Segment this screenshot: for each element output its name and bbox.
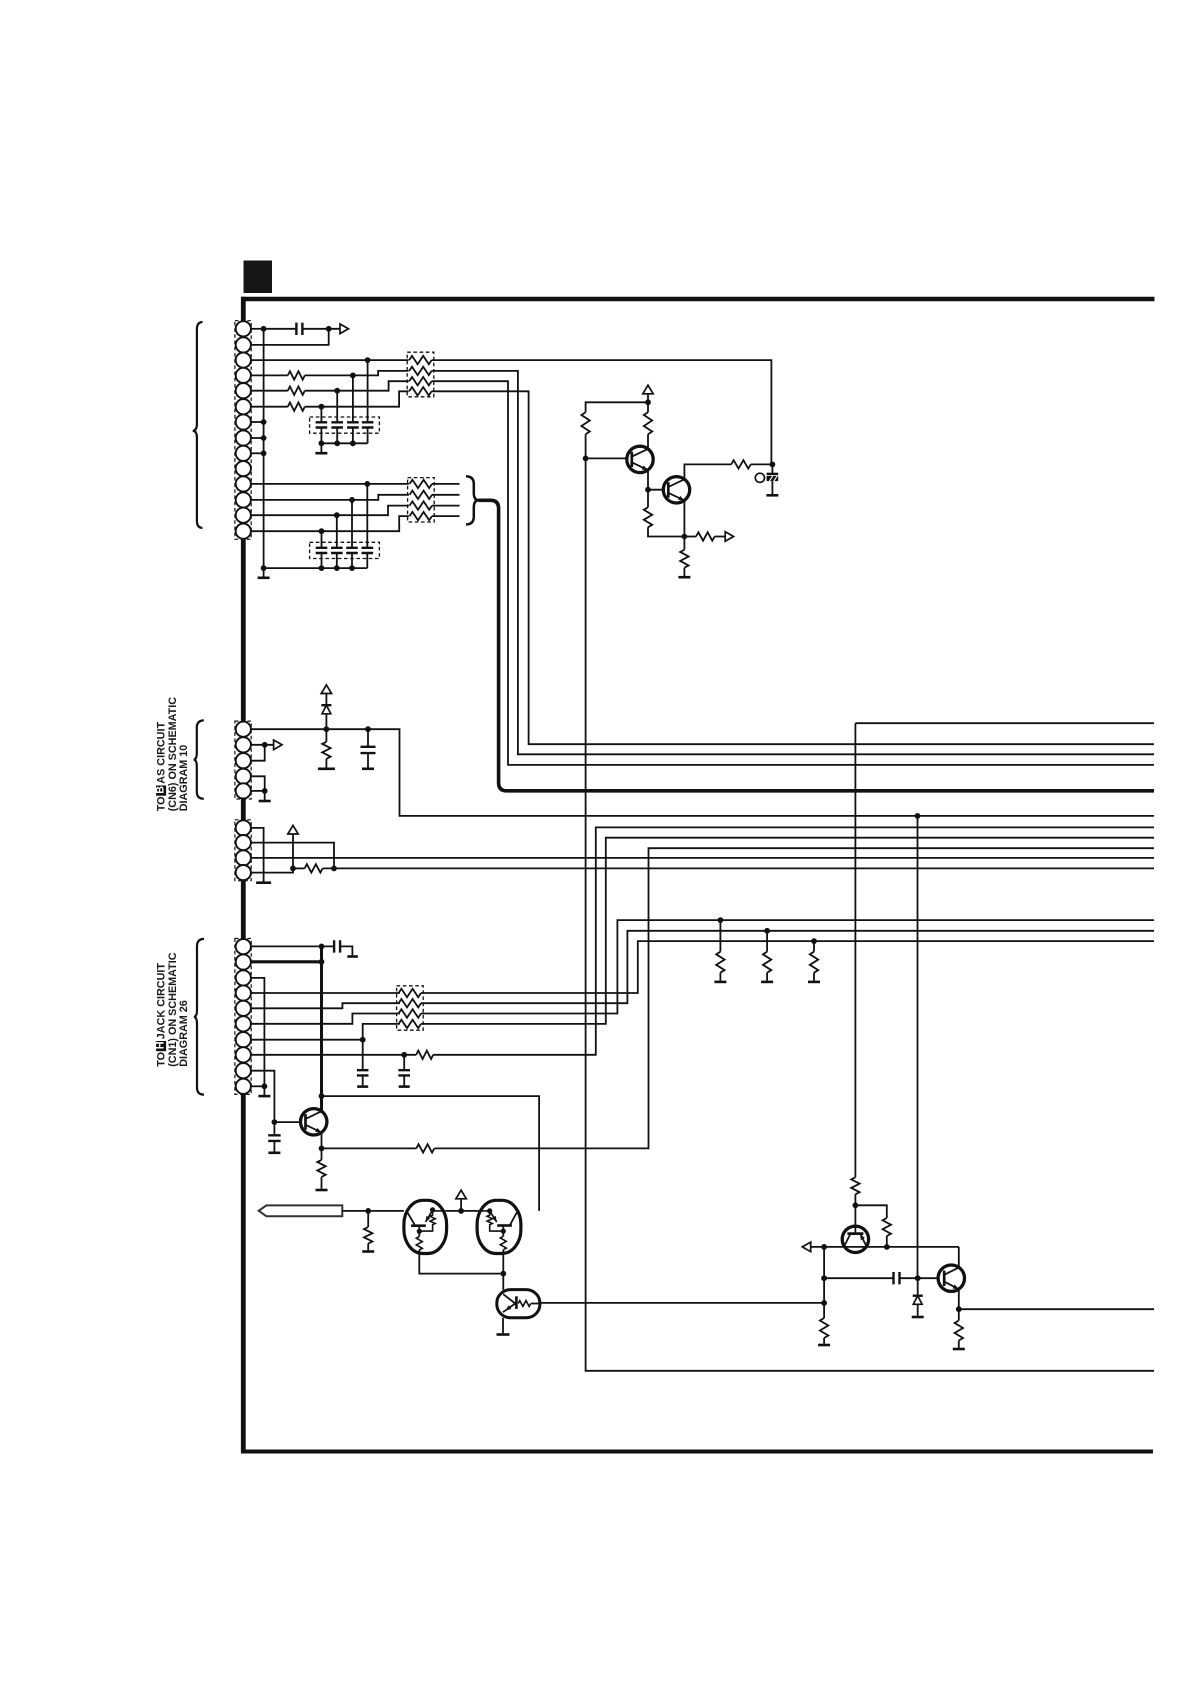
wire pin A1 stub xyxy=(251,328,264,330)
wire node to R21 xyxy=(855,1205,886,1218)
capacitor CN1.3 xyxy=(347,422,359,427)
ground (R22) xyxy=(818,1344,830,1347)
resistor RN2b xyxy=(410,491,432,499)
page frame: black index square top-left xyxy=(244,261,273,294)
wire Q5 emitter bus to right edge xyxy=(959,1308,1154,1310)
wire pin A4 stub xyxy=(251,374,288,376)
svg-text:(CN1) ON SCHEMATIC: (CN1) ON SCHEMATIC xyxy=(167,952,179,1067)
transistor Q5 (NPN, base on left) xyxy=(938,1265,964,1291)
capacitor network CN1 dashed outline xyxy=(310,417,380,433)
wire Q5 emitter down xyxy=(958,1289,960,1320)
wire Q2 emitter down xyxy=(683,501,685,537)
wire diode D1 to node B1 xyxy=(325,714,327,729)
wire supply to node C4 xyxy=(292,834,294,868)
wire CN1.2 lower lead xyxy=(336,428,338,444)
node A7 on bus xyxy=(261,419,267,425)
resistor RN1b xyxy=(409,367,431,375)
svg-text:JACK CIRCUIT: JACK CIRCUIT xyxy=(155,963,167,1040)
resistor R10 (emitter load) xyxy=(680,550,688,568)
wire R7 to Q2 emitter node xyxy=(648,527,684,536)
node B4/B5 tie xyxy=(262,788,268,794)
wire R10 to ground xyxy=(683,568,685,576)
capacitor CN2.3 xyxy=(346,548,358,553)
wire Q3 collector net to D2 emitter xyxy=(322,1096,540,1211)
resistor RN3c xyxy=(399,1009,421,1017)
wire long vertical from Q1 base node to bottom bus xyxy=(586,458,1154,1370)
wire D2 to D3 xyxy=(447,1210,478,1212)
resistor R15 (bus pulldown) xyxy=(763,952,771,973)
wire Q3 emitter to R17 xyxy=(322,1147,417,1149)
svg-text:DIAGRAM 10: DIAGRAM 10 xyxy=(178,745,190,812)
D2 emitter arrow xyxy=(426,1216,431,1222)
wire thick bus from brace down and right to edge xyxy=(478,500,1154,791)
resistor R21 (Q4 feedback) xyxy=(883,1218,891,1236)
wire pin C2 down to R12 output xyxy=(251,843,334,869)
svg-text:TO: TO xyxy=(155,1052,167,1067)
ground (cap C6) xyxy=(268,1152,280,1155)
wire pin A3 to resistor network RN1 xyxy=(251,359,409,361)
node J1 xyxy=(319,944,325,950)
resistor R13 (pin J8 series) xyxy=(416,1051,433,1059)
node Q4 base/R21 xyxy=(853,1202,859,1208)
wire cap network CN2 ground rail xyxy=(264,567,368,569)
wire cap C4 to ground xyxy=(362,1075,364,1085)
wire diode D4 to ground xyxy=(917,1304,919,1316)
label TO BIAS CIRCUIT (rotated) xyxy=(155,697,191,812)
wire A6 to RN1 row4 xyxy=(305,391,409,406)
ground (PH1) xyxy=(497,1333,510,1336)
wire bus941 to R16 xyxy=(813,941,815,952)
svg-text:(CN6) ON SCHEMATIC: (CN6) ON SCHEMATIC xyxy=(167,697,179,812)
node A9 on bus xyxy=(261,450,267,456)
node bus930/R15 xyxy=(764,928,770,934)
capacitor C1 xyxy=(296,323,302,335)
wire A4 down to cap network CN1.3 xyxy=(352,375,354,422)
border left edge of schematic sheet (segments between connectors) xyxy=(241,297,246,1454)
wire node down to R22 xyxy=(823,1247,825,1318)
node C2 tie on bus xyxy=(331,866,337,872)
wire pin A2 to A1 node xyxy=(251,329,329,345)
wire R8 to node ZZ xyxy=(751,463,773,465)
node Q3 base xyxy=(272,1119,278,1125)
node B1/diode junction xyxy=(324,726,330,732)
ground (cap network CN1) xyxy=(315,452,327,455)
wire pin J2 stub (heavy) xyxy=(251,960,322,963)
node rail/R21 xyxy=(884,1244,890,1250)
wire cap network CN1 ground rail xyxy=(321,442,367,444)
ground (R23) xyxy=(953,1348,965,1351)
wire bus920 to R14 xyxy=(719,920,721,952)
power arrow (BIAS supply) xyxy=(321,685,331,694)
node A12 branch xyxy=(349,497,355,503)
wire RN3d output up to bus 837 xyxy=(421,838,1154,1024)
wire cap C3 to ground xyxy=(340,946,352,955)
PH1 emitter arrow xyxy=(505,1305,511,1310)
node C7 left xyxy=(821,1275,827,1281)
resistor R6 (Q1 collector load) xyxy=(644,412,652,434)
node Q2 emitter xyxy=(682,534,688,540)
wire pin B5 stub xyxy=(251,790,265,792)
wire pin C4 to node xyxy=(251,868,293,872)
capacitor CN1.4 xyxy=(362,422,374,427)
wire pin A5 stub xyxy=(251,390,288,392)
resistor RN3d xyxy=(399,1020,421,1028)
node PH1 output tie xyxy=(821,1300,827,1306)
node supply tie xyxy=(645,399,651,405)
node bus941/R16 xyxy=(811,938,817,944)
wire node to ground xyxy=(263,1086,265,1095)
signal arrow out (Q2 emitter) xyxy=(725,532,733,542)
node Q5 emitter xyxy=(956,1306,962,1312)
capacitor C3 xyxy=(334,940,340,952)
brace for JACK connector xyxy=(194,939,204,1095)
resistor network RN3 dashed outline xyxy=(397,986,424,1030)
wire pin J3 down to J10 node xyxy=(251,978,265,1086)
node J8 branch xyxy=(401,1052,407,1058)
wire node to ground xyxy=(264,791,266,800)
wire pin J6 to RN3 row3 xyxy=(251,1014,400,1024)
resistor R7 (Q2 base return) xyxy=(644,507,652,527)
wire R22 to ground xyxy=(823,1338,825,1344)
signal arrow out (pin A1 net) xyxy=(340,324,348,334)
resistor network RN2 dashed outline xyxy=(408,478,435,522)
wire node ZZ to cap CZ xyxy=(771,464,773,474)
wire pin C3 bus to right edge xyxy=(251,857,1154,859)
resistor R20 xyxy=(851,1177,859,1194)
connector CN-C (4-pin) xyxy=(235,820,251,881)
wire pin A12 to RN2 row2 xyxy=(251,495,409,500)
node C7/diode D4 xyxy=(915,1275,921,1281)
wire node to R12 xyxy=(293,867,305,869)
wire A14 down to cap CN2.1 xyxy=(321,531,323,548)
resistor RN2d xyxy=(410,512,432,520)
resistor D2 internal lower xyxy=(416,1237,422,1251)
wire pin A13 to RN2 row3 xyxy=(251,506,409,516)
wire PH1 output to Q5 network xyxy=(540,1302,825,1304)
wire long vertical bus815 to node D4 xyxy=(917,816,919,1278)
resistor R16 (bus pulldown) xyxy=(810,952,818,973)
wire node B1 to R11 xyxy=(325,729,327,742)
wire PH1 lower pin to ground xyxy=(502,1318,504,1334)
resistor R3 (pin A5 series) xyxy=(288,387,305,395)
capacitor CN1.2 xyxy=(331,422,343,427)
wire to Q2 base xyxy=(648,489,668,491)
wire J8 net up to bus 827 xyxy=(433,827,1154,1054)
ground (cap C3) xyxy=(347,955,358,958)
wire pin B1 bus to right edge xyxy=(251,729,1154,816)
node rail/C7 branch xyxy=(821,1244,827,1250)
photo device PH1 (stadium outline) xyxy=(497,1290,540,1318)
Q1 emitter arrow xyxy=(642,466,648,471)
resistor R5 (Q1 base bias) xyxy=(581,412,589,434)
resistor R8 (Q2 collector) xyxy=(731,460,751,468)
node B2 xyxy=(262,742,268,748)
wire A6 down to cap network CN1.1 xyxy=(320,407,322,423)
wire D2 output to node xyxy=(419,1250,503,1274)
wire Q3 emitter down xyxy=(321,1133,323,1160)
test point circle ZZ xyxy=(755,473,764,482)
transistor Q2 (NPN) xyxy=(663,477,689,503)
wire J7 down to cap C4 xyxy=(362,1040,364,1071)
wire CN2.3 lower lead xyxy=(351,553,353,568)
wire R14 to ground xyxy=(719,973,721,981)
wire RN2a to brace xyxy=(432,483,460,485)
wire bus930 to R15 xyxy=(766,931,768,952)
wire A5 down to cap network CN1.2 xyxy=(336,391,338,423)
wire pin B4 down xyxy=(251,776,265,791)
node D3 emitter pin xyxy=(487,1208,492,1213)
ground (diode D4) xyxy=(912,1316,924,1319)
capacitor CN2.2 xyxy=(331,548,343,553)
wire flag to D2 input xyxy=(342,1210,404,1212)
svg-text:AS CIRCUIT: AS CIRCUIT xyxy=(155,722,167,784)
wire node to cap C6 xyxy=(273,1122,275,1135)
wire supply to diode D1 xyxy=(325,694,327,706)
connector CN6 (BIAS, 5-pin) xyxy=(235,721,251,799)
wire RN2c to brace xyxy=(432,505,460,507)
wire R18 to ground xyxy=(321,1177,323,1189)
ground (R16) xyxy=(808,981,820,984)
wire pin B2 stub xyxy=(251,744,274,746)
capacitor network CN2 dashed outline xyxy=(310,542,380,558)
Q3 emitter arrow xyxy=(315,1128,321,1133)
power arrow (D2/D3 supply) xyxy=(456,1190,466,1199)
wire RN3c output up to bus 920 xyxy=(421,920,1154,1013)
wire node to cap C7 xyxy=(824,1277,893,1279)
wire RN3b output up to bus 930 xyxy=(421,931,1154,1003)
brace for BIAS connector xyxy=(194,720,204,798)
wire Q1 emitter down xyxy=(647,470,649,490)
wire pin B3 to node B2 xyxy=(251,745,265,761)
wire CN2.2 lower lead xyxy=(336,553,338,568)
resistor R18 (Q3 emitter load) xyxy=(317,1160,325,1177)
wire pin C1 down to ground xyxy=(251,828,264,882)
wire cap C2 to ground xyxy=(367,753,369,768)
node A14 branch xyxy=(319,528,325,534)
border top edge of schematic sheet xyxy=(241,297,1155,302)
wire CN2.1 lower lead xyxy=(321,553,323,568)
resistor RN2a xyxy=(410,480,432,488)
wire node B1 to cap C2 xyxy=(367,729,369,747)
capacitor CN2.4 xyxy=(362,548,374,553)
transistor Q1 (NPN) xyxy=(627,446,653,472)
wire pin J4 to RN3 row1 xyxy=(251,992,400,994)
connector CN1 (JACK, 10-pin) xyxy=(235,939,251,1095)
resistor R11 (bias divider) xyxy=(322,742,330,759)
node D2 internal xyxy=(417,1229,422,1234)
brace gathering RN2 outputs xyxy=(466,476,479,524)
resistor R14 (bus pulldown) xyxy=(716,952,724,973)
wire RN1a output to node ZZ xyxy=(432,360,772,464)
wire supply to node xyxy=(647,394,649,413)
wire A1 to capacitor C1 xyxy=(264,328,297,330)
node A5 branch xyxy=(334,388,340,394)
diode D1 xyxy=(321,705,331,714)
node J3/J10 tie xyxy=(262,1083,268,1089)
resistor R19 (pulldown) xyxy=(364,1227,372,1244)
wire R9 to arrow xyxy=(715,536,726,538)
capacitor C4 xyxy=(357,1070,369,1075)
wire R19 to ground xyxy=(367,1244,369,1251)
svg-text:TO: TO xyxy=(155,796,167,811)
Q4 emitter arrow (PNP) xyxy=(860,1234,865,1240)
ground (cap C5) xyxy=(399,1085,410,1088)
wire PH1 resistor to right pin xyxy=(531,1303,540,1305)
wire cap C5 to ground xyxy=(403,1075,405,1085)
ground (pins B4/B5) xyxy=(259,800,271,803)
wire rail down to Q5 collector xyxy=(958,1247,960,1268)
wire to R9 xyxy=(684,536,696,538)
wire CN1.3 lower lead xyxy=(352,428,354,444)
node D2 emitter pin xyxy=(430,1207,435,1212)
resistor RN1d xyxy=(409,387,431,395)
wire R11 to ground xyxy=(325,759,327,768)
wire heavy vertical J1/J2 to Q3 collector xyxy=(320,946,323,1111)
brace for top connector CN-A xyxy=(193,322,203,528)
border bottom edge of schematic sheet xyxy=(241,1450,1153,1454)
resistor R12 xyxy=(305,864,323,872)
wire ground bus A vertical xyxy=(263,329,265,568)
wire pin A6 stub xyxy=(251,406,288,408)
wire to Q1 base xyxy=(586,457,632,459)
label TO H JACK CIRCUIT (rotated) xyxy=(155,952,191,1067)
ground (R14) xyxy=(714,981,726,984)
wire pin J10 stub xyxy=(251,1085,265,1087)
wire to Q3 base xyxy=(274,1121,305,1123)
wire RN2b to brace xyxy=(432,494,460,496)
ground (bus A) xyxy=(258,576,270,579)
power arrow (C-group pull-up) xyxy=(288,825,298,834)
wire RN3a output up to bus 941 xyxy=(421,941,1154,993)
digital transistor D2 (with built-in resistors) xyxy=(404,1200,447,1253)
capacitor CZ (polarized, hatched plate) xyxy=(767,474,779,481)
resistor R9 (output series) xyxy=(696,532,715,540)
wire CN1.4 lower lead xyxy=(367,428,369,444)
resistor R4 (pin A6 series) xyxy=(288,403,305,411)
svg-text:DIAGRAM 26: DIAGRAM 26 xyxy=(178,1000,190,1067)
node flag/R19 xyxy=(365,1208,371,1214)
D3 emitter arrow xyxy=(492,1216,497,1222)
wire pin J5 to RN3 row2 xyxy=(251,1003,400,1008)
ground (pins J3/J10) xyxy=(258,1095,270,1098)
wire C1 to output arrow xyxy=(302,328,340,330)
svg-text:H: H xyxy=(155,1041,167,1049)
wire node to R10 xyxy=(683,537,685,550)
node Q3 emitter xyxy=(319,1146,325,1152)
wire R23 to ground xyxy=(958,1341,960,1348)
wire pin J8 to R13 xyxy=(251,1054,416,1056)
wire R12 output bus to right edge xyxy=(323,867,1154,869)
wire cap C6 to ground xyxy=(273,1141,275,1152)
wire D3 output down to LED block xyxy=(502,1250,504,1290)
digital transistor D3 (with built-in resistors) xyxy=(475,1200,521,1253)
resistor RN3b xyxy=(399,999,421,1007)
resistor RN3a xyxy=(399,989,421,997)
capacitor C7 xyxy=(894,1272,900,1284)
node Q1 emitter / Q2 base xyxy=(645,487,651,493)
resistor R23 (Q5 emitter load) xyxy=(955,1321,963,1341)
node A8 on bus xyxy=(261,435,267,441)
resistor network RN1 dashed outline xyxy=(407,352,434,397)
wire R6 to Q1 collector xyxy=(647,434,649,449)
ground (R10) xyxy=(678,576,690,579)
wire node to R19 xyxy=(367,1211,369,1227)
node A11 branch xyxy=(364,481,370,487)
connector CN-A (14-pin, top left) xyxy=(235,321,251,540)
wire supply arrow stem xyxy=(460,1199,462,1211)
capacitor CN2.1 xyxy=(316,548,328,553)
wire pin A9 to ground bus xyxy=(251,452,264,454)
capacitor C6 xyxy=(268,1135,280,1141)
ground (R19) xyxy=(362,1250,374,1253)
wire pin J1 to cap C3 xyxy=(251,945,334,947)
node Q3 collector branch xyxy=(319,1093,325,1099)
wire A3 down to cap network CN1.4 xyxy=(367,360,369,422)
wire A4 to RN1 row2 xyxy=(305,371,409,376)
wire R16 to ground xyxy=(813,973,815,981)
signal arrow in (left) xyxy=(802,1242,810,1252)
ground (cap CZ) xyxy=(766,494,778,497)
capacitor C5 xyxy=(398,1070,410,1075)
node B1/cap junction xyxy=(365,726,371,732)
wire node to R7 xyxy=(647,490,649,508)
wire pin A8 to ground bus xyxy=(251,437,264,439)
resistor R22 xyxy=(820,1318,828,1338)
node supply tie D2/D3 xyxy=(458,1208,464,1214)
wire CN2.4 lower lead xyxy=(366,553,368,568)
node ZZ junction xyxy=(770,462,776,468)
wire supply to bias resistor xyxy=(586,402,648,412)
node D2/D3 outputs tie xyxy=(500,1271,506,1277)
resistor RN1c xyxy=(409,377,431,385)
wire J8 down to cap C5 xyxy=(403,1055,405,1070)
ground (pin C1) xyxy=(256,881,271,884)
transistor Q3 (NPN) xyxy=(301,1109,327,1135)
svg-text:B: B xyxy=(155,786,167,794)
resistor R2 (pin A4 series) xyxy=(288,371,305,379)
node J2 xyxy=(319,959,325,965)
wire cap C7 to Q5 base xyxy=(900,1277,945,1279)
wire RN1c output bus to right edge xyxy=(432,381,1154,765)
wire pin A14 to RN2 row4 xyxy=(251,516,409,531)
node A4 branch xyxy=(350,373,356,379)
wire cap CZ to ground xyxy=(771,481,773,494)
wire pin A7 to ground bus xyxy=(251,421,264,423)
node A3 branch xyxy=(365,357,371,363)
node Q1 base xyxy=(583,456,589,462)
wire RN1d output bus to right edge xyxy=(432,391,1154,744)
node bus920/R14 xyxy=(718,917,724,923)
node bus815 branch xyxy=(915,813,921,819)
ground (R11) xyxy=(318,767,335,770)
wire A13 down to cap CN2.2 xyxy=(336,515,338,548)
pointer flag (switch lever symbol) xyxy=(259,1205,343,1216)
Q2 emitter arrow xyxy=(678,496,684,501)
wire Q4 emitter rail xyxy=(811,1246,959,1248)
wire RN2d to brace xyxy=(432,515,460,517)
wire R5 to Q1 base node xyxy=(585,434,587,458)
node A6 branch xyxy=(319,404,325,410)
wire R21 down to emitter line xyxy=(886,1236,888,1247)
transistor Q4 (PNP, base on top) xyxy=(842,1226,868,1252)
diode D4 xyxy=(913,1296,923,1305)
wire bus 723 down to R20 xyxy=(854,723,856,1177)
wire bus 723 to right edge xyxy=(855,722,1154,724)
wire bus A to ground xyxy=(263,568,265,577)
node A1/A2 tie xyxy=(326,326,332,332)
capacitor CN1.1 xyxy=(316,422,328,427)
wire node to diode D4 xyxy=(917,1278,919,1296)
